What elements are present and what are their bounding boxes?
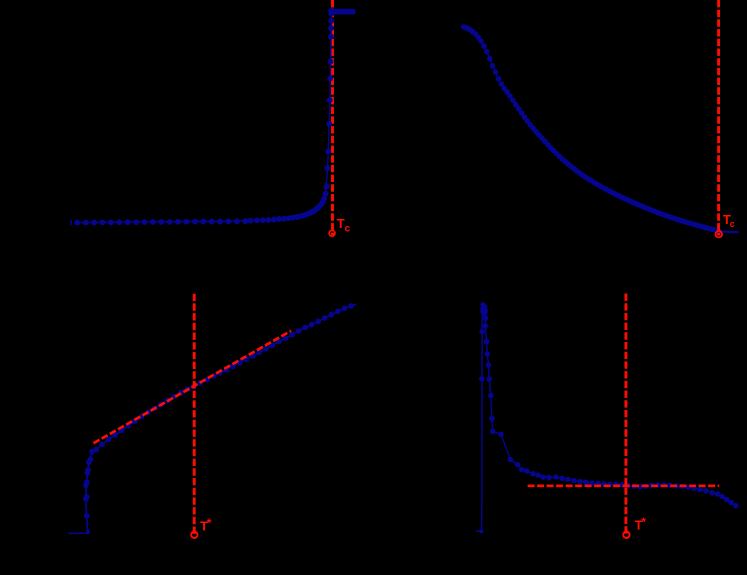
svg-text:T: T: [337, 216, 345, 231]
panel2 Tc circle marker: [716, 231, 722, 237]
panel1 Tc dashed vertical line: [331, 0, 334, 235]
panel3 blue markers: [86, 530, 90, 534]
svg-text:*: *: [641, 515, 646, 529]
panel2 Tc dashed vertical line: [717, 0, 720, 236]
svg-text:c: c: [345, 224, 351, 235]
panel3 red dashed linear fit: [94, 331, 292, 443]
panel2 blue tail line past Tc: [719, 231, 739, 232]
panel4 Tstar dashed vertical line: [624, 294, 627, 536]
panel4 blue left peak line: [476, 305, 483, 531]
svg-text:c: c: [730, 219, 735, 229]
panel1 blue data line: [77, 12, 353, 223]
panel2 blue data line: [464, 27, 719, 231]
panel1 clipped edge marker tick: [70, 220, 72, 225]
panel3 blue data line: [69, 304, 357, 533]
panel4 blue right branch line: [483, 305, 736, 506]
panel3 Tstar dashed vertical line: [193, 294, 196, 536]
panel4 Tstar circle marker: [623, 532, 629, 538]
panel1 blue markers: [74, 220, 80, 226]
panel1 top bar markers after transition: [328, 9, 334, 15]
panel4 red dashed horizontal asymptote: [528, 484, 720, 487]
panel3 Tstar circle marker: [191, 532, 197, 538]
svg-text:*: *: [207, 516, 212, 530]
panel2 blue markers: [461, 24, 467, 30]
panel1 Tc circle marker: [329, 230, 335, 236]
panel4 blue markers: [480, 530, 484, 534]
